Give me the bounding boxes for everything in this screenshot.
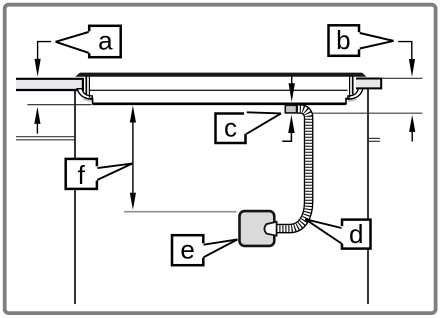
dimension b (right top) <box>398 42 415 77</box>
right clamp spring <box>348 89 363 102</box>
extension line right of hose <box>313 112 423 114</box>
dimension arrow left lower (up) <box>34 107 40 134</box>
svg-text:f: f <box>78 160 86 190</box>
dimension c upper (down arrow) <box>289 77 295 102</box>
cooktop glass top <box>75 73 366 77</box>
extension line under cooktop left <box>27 104 91 106</box>
dimension arrow right lower (up) <box>409 115 415 142</box>
right rail double line <box>369 137 380 139</box>
junction block c <box>285 105 296 113</box>
label f <box>66 159 133 190</box>
cable gland on box e <box>264 222 276 236</box>
label c <box>216 112 282 143</box>
right frame profile <box>346 77 353 105</box>
svg-text:d: d <box>349 219 363 249</box>
mains box e <box>240 211 275 246</box>
dimension a (left top) <box>35 42 52 77</box>
label e <box>172 235 238 266</box>
countertop left section <box>16 79 83 90</box>
svg-text:c: c <box>224 113 237 143</box>
left rail double line <box>16 136 74 138</box>
left clamp spring <box>77 89 92 102</box>
clearance line (grey) <box>124 211 237 213</box>
countertop right section <box>356 79 381 89</box>
label b <box>329 25 394 56</box>
right cabinet wall <box>367 89 369 304</box>
svg-text:b: b <box>336 25 350 55</box>
dimension f (double arrow) <box>130 106 136 210</box>
countertop extension line right <box>382 77 423 79</box>
left cabinet wall <box>74 90 76 304</box>
housing inner line <box>90 89 348 91</box>
svg-text:a: a <box>98 25 113 55</box>
left frame profile <box>86 77 92 105</box>
dimension c lower (up arrow with foot) <box>282 115 294 142</box>
label a <box>56 25 121 57</box>
svg-text:e: e <box>180 235 194 265</box>
cooktop housing body <box>86 77 353 103</box>
corrugated hose d <box>277 109 309 229</box>
label d <box>305 219 370 249</box>
housing underside <box>93 102 346 105</box>
